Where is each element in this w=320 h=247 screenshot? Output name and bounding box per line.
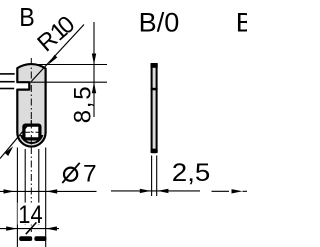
svg-text:8,5: 8,5 — [69, 86, 96, 123]
svg-text:B: B — [236, 8, 247, 38]
middle view bar (B/0) — [151, 63, 158, 153]
right view dimension line (cropped) — [212, 190, 230, 192]
R10 arrowhead — [48, 55, 57, 65]
8,5 dimension line — [93, 22, 95, 117]
right-pointing arrow — [4, 189, 15, 193]
right-pointing arrow — [232, 189, 243, 193]
left stub lines — [0, 73, 15, 75]
bottom cap — [151, 149, 158, 154]
bottom dashes (next view cropped) — [19, 236, 32, 241]
8,5 bottom extension line — [29, 81, 107, 83]
band — [151, 88, 158, 91]
svg-text:B/0: B/0 — [139, 8, 180, 38]
svg-text:7: 7 — [83, 161, 97, 188]
svg-text:2,5: 2,5 — [172, 159, 211, 187]
oblique slash — [26, 222, 37, 234]
leader line bottom-left — [0, 124, 29, 159]
8,5 down arrow — [92, 54, 96, 65]
dimension line (y=191) left view — [0, 190, 97, 192]
top cap — [151, 63, 158, 67]
2,5 dimension line — [111, 190, 200, 192]
vertical centerline through square hole — [30, 121, 32, 144]
R10 leader line — [32, 25, 84, 82]
extension lines below bar — [151, 156, 153, 197]
left-pointing arrow — [46, 226, 57, 230]
part body (left view) — [17, 64, 45, 147]
diameter symbol of ø7 — [64, 168, 77, 181]
leader arrowhead — [5, 146, 14, 156]
left-pointing arrow — [46, 189, 57, 193]
svg-text:14: 14 — [18, 201, 42, 229]
left-pointing arrow — [157, 189, 168, 193]
extension lines below part — [16, 148, 18, 247]
dimension line (y=228.6) — [0, 228, 59, 230]
right-pointing arrow — [6, 226, 17, 230]
square hole — [24, 125, 40, 139]
horizontal centerline dash through hole — [25, 131, 39, 133]
8,5 top extension line — [30, 64, 107, 66]
right-pointing arrow — [140, 189, 151, 193]
14 text — [18, 203, 42, 225]
8,5 up arrow — [92, 82, 96, 93]
centerline (vertical, left view) — [30, 58, 32, 120]
svg-text:B: B — [19, 4, 35, 32]
